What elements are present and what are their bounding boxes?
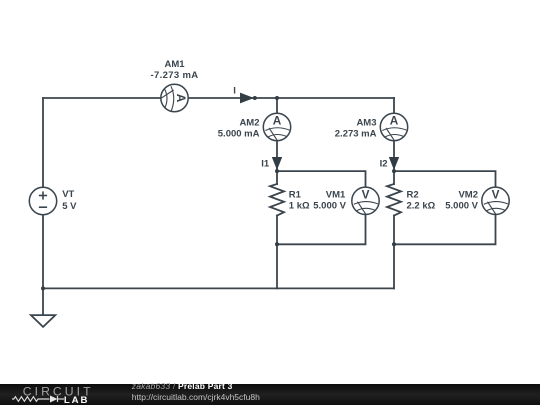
svg-text:VT: VT: [62, 189, 74, 200]
node junction top of AM2 branch: [275, 96, 279, 100]
svg-text:V: V: [492, 187, 500, 201]
ground: [31, 315, 55, 327]
ammeter AM3: [380, 113, 407, 141]
current arrow I: [240, 93, 254, 104]
svg-text:V: V: [362, 187, 370, 201]
wire top-left horizontal: [43, 97, 161, 99]
svg-text:A: A: [390, 114, 399, 128]
wire R1 bottom lead to junction: [276, 216, 278, 245]
wire AM2 drop from top rail: [276, 98, 278, 113]
node R1 top junction: [275, 169, 279, 173]
svg-text:R1: R1: [289, 189, 302, 200]
svg-text:A: A: [273, 114, 282, 128]
svg-text:AM2: AM2: [239, 117, 259, 128]
voltage source VT: [29, 187, 56, 214]
wire R2 bottom lead to junction: [393, 216, 395, 245]
svg-text:2.2 kΩ: 2.2 kΩ: [407, 201, 436, 212]
voltmeter VM2: [482, 187, 509, 215]
wire VT bottom to ground junction: [42, 215, 44, 289]
wire VM1 loop top: [277, 171, 366, 187]
svg-text:5.000 V: 5.000 V: [313, 201, 346, 212]
wire ground stub: [42, 288, 44, 315]
wire left vertical (top corner to VT): [42, 98, 44, 187]
svg-text:VM1: VM1: [326, 189, 346, 200]
svg-text:5.000 V: 5.000 V: [445, 201, 478, 212]
ammeter AM2: [263, 113, 290, 141]
current arrow I2: [389, 157, 399, 170]
svg-text:-7.273 mA: -7.273 mA: [150, 70, 198, 81]
node R2 bottom junction: [392, 242, 396, 246]
wire bottom rail: [43, 287, 394, 289]
svg-text:I1: I1: [261, 159, 270, 170]
wire VM2 loop top: [394, 171, 496, 187]
node dot after arrow I: [253, 96, 257, 100]
CircuitLab logo: [0, 384, 110, 405]
resistor R1 zigzag: [270, 184, 284, 216]
resistor R2 zigzag: [387, 184, 401, 216]
wire R1 top lead: [276, 171, 278, 184]
wire VM1 bottom: [277, 215, 366, 245]
svg-text:LAB: LAB: [64, 395, 89, 405]
svg-text:I2: I2: [380, 159, 388, 170]
svg-text:AM1: AM1: [164, 59, 185, 70]
svg-text:VM2: VM2: [458, 189, 478, 200]
wire VM2 bottom: [394, 215, 496, 245]
voltmeter VM1: [352, 187, 379, 215]
footer bar: [0, 384, 540, 405]
svg-text:I: I: [233, 85, 236, 96]
svg-text:2.273 mA: 2.273 mA: [335, 128, 377, 139]
svg-text:5.000 mA: 5.000 mA: [218, 128, 260, 139]
svg-text:5 V: 5 V: [62, 201, 77, 212]
wire AM2 bottom to R1 top junction: [276, 141, 278, 171]
wire AM3 bottom to R2 top junction: [393, 141, 395, 171]
wire AM3 drop from top rail: [393, 98, 395, 113]
svg-text:1 kΩ: 1 kΩ: [289, 201, 310, 212]
node R2 top junction: [392, 169, 396, 173]
svg-text:AM3: AM3: [356, 117, 376, 128]
wire R1 junction down to bottom rail: [276, 244, 278, 288]
ammeter AM1 (rotated 90deg): [161, 84, 189, 111]
footer text: [132, 381, 260, 404]
node R1 bottom junction: [275, 242, 279, 246]
wire top-mid horizontal (AM1 right to AM3 corner): [188, 97, 394, 99]
node ground junction: [41, 286, 45, 290]
wire R2 top lead: [393, 171, 395, 184]
svg-text:R2: R2: [407, 189, 419, 200]
wire R2 junction down to bottom rail: [393, 244, 395, 288]
svg-text:A: A: [174, 94, 188, 103]
current arrow I1: [272, 157, 282, 170]
